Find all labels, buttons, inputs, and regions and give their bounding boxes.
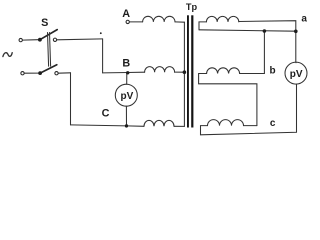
svg-text:pV: pV: [290, 69, 303, 80]
svg-text:S: S: [41, 17, 48, 29]
svg-text:b: b: [270, 66, 276, 77]
svg-text:B: B: [122, 58, 130, 70]
svg-text:C: C: [102, 108, 110, 120]
svg-text:Tp: Tp: [186, 2, 198, 12]
svg-text:pV: pV: [121, 91, 134, 102]
svg-text:A: A: [122, 8, 130, 20]
svg-text:c: c: [270, 118, 276, 129]
svg-text:a: a: [301, 14, 307, 25]
